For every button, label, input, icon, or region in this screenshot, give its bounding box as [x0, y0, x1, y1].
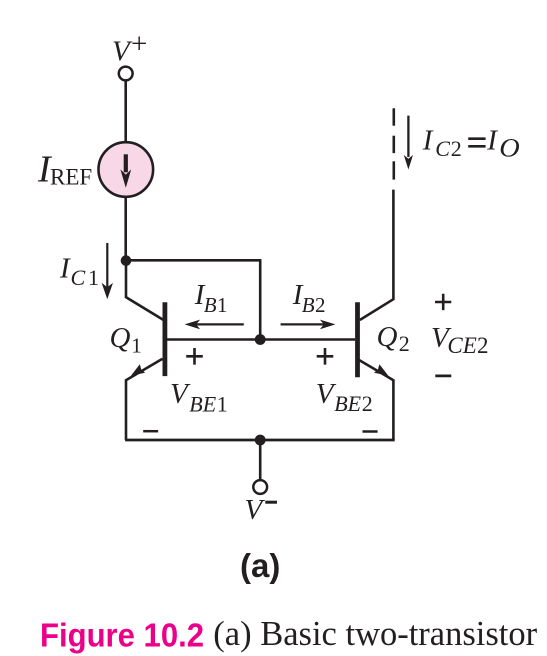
arrow IB2 (right) — [281, 320, 336, 330]
svg-text:(a) Basic two-transistor: (a) Basic two-transistor — [213, 615, 537, 653]
wire Q1 emitter and left down wire — [126, 359, 163, 440]
svg-text:2: 2 — [362, 391, 373, 416]
label V+ — [112, 28, 147, 67]
label IC1 — [59, 252, 99, 290]
wire dashed collector segment 1 — [392, 108, 395, 125]
wire bottom rail — [125, 439, 395, 442]
label + (VBE1 plus) — [186, 348, 203, 365]
arrow IC1 (down) — [102, 243, 113, 299]
label minus (VBE1 minus) — [143, 430, 158, 433]
svg-text:1: 1 — [217, 392, 228, 417]
svg-text:1: 1 — [131, 334, 142, 358]
label IREF — [37, 149, 92, 191]
svg-text:REF: REF — [50, 164, 92, 189]
wire node A to base node (top horizontal and right vertical) — [126, 260, 260, 339]
wire dashed collector segment 3 — [392, 161, 395, 179]
svg-text:BE: BE — [334, 391, 361, 416]
label + (VBE2 plus) — [317, 348, 334, 365]
node C (bottom rail center) — [255, 435, 266, 446]
wire dashed collector segment 2 — [392, 136, 395, 153]
svg-text:2: 2 — [451, 136, 462, 161]
svg-text:1: 1 — [217, 293, 228, 317]
wire base rail Q1 to Q2 — [165, 338, 355, 341]
transistor Q1 base bar — [162, 302, 167, 376]
power terminal V+ — [119, 67, 133, 81]
svg-text:I: I — [422, 125, 434, 157]
svg-text:CE: CE — [447, 333, 476, 358]
svg-text:B: B — [204, 293, 217, 317]
label VBE1 — [170, 378, 228, 417]
svg-text:Figure 10.2: Figure 10.2 — [40, 618, 204, 655]
wire current source to node A — [124, 197, 127, 261]
transistor Q1 emitter arrowhead — [131, 364, 145, 375]
wire Q2 emitter and right down wire — [357, 359, 394, 440]
wire base node to V- terminal — [259, 440, 262, 480]
svg-text:C: C — [435, 136, 450, 161]
svg-text:BE: BE — [189, 392, 216, 417]
label minus (VBE2 minus) — [363, 430, 378, 433]
arrow IB1 (left) — [185, 320, 244, 330]
current source IREF circle — [99, 142, 154, 197]
svg-text:(a): (a) — [240, 547, 280, 584]
svg-text:2: 2 — [399, 331, 410, 356]
svg-text:B: B — [302, 293, 315, 317]
node A (top of Q1 collector) — [121, 255, 132, 266]
current source arrow — [120, 154, 131, 188]
svg-text:C: C — [71, 265, 86, 290]
power terminal V- — [253, 480, 267, 494]
label VBE2 — [316, 378, 373, 416]
label IB2 — [292, 279, 326, 317]
transistor Q2 emitter arrowhead — [374, 364, 388, 375]
svg-text:1: 1 — [88, 265, 99, 290]
svg-text:O: O — [499, 134, 520, 163]
svg-text:Q: Q — [110, 322, 131, 354]
label IB1 — [194, 279, 228, 317]
label IC2 = IO — [422, 125, 520, 163]
label VCE2 — [431, 322, 489, 358]
wire Q1 collector slant up to node A — [126, 260, 164, 320]
label minus (VCE2 minus) — [435, 374, 451, 377]
transistor Q2 base bar — [355, 302, 360, 377]
node B (base node) — [255, 334, 266, 345]
wire Q2 collector slant and vertical — [360, 190, 394, 320]
label V- — [245, 494, 278, 526]
wire V+ terminal to current source — [124, 81, 127, 143]
svg-text:2: 2 — [477, 333, 489, 358]
svg-text:Q: Q — [377, 321, 398, 353]
label Q1 — [110, 322, 142, 357]
svg-text:2: 2 — [315, 293, 326, 317]
arrow IC2 (down, output current) — [404, 116, 413, 170]
svg-text:I: I — [486, 125, 498, 157]
label + (VCE2 plus) — [435, 294, 451, 310]
label Q2 — [377, 321, 410, 356]
svg-text:I: I — [59, 252, 71, 284]
svg-text:+: + — [131, 28, 147, 60]
